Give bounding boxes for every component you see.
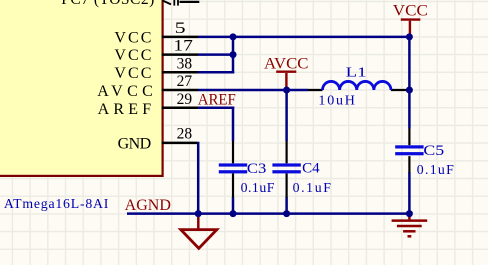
svg-text:AGND: AGND (125, 197, 171, 214)
svg-text:5: 5 (175, 20, 186, 37)
svg-text:28: 28 (177, 126, 193, 143)
svg-text:38: 38 (177, 55, 193, 72)
svg-text:29: 29 (177, 91, 193, 108)
svg-text:17: 17 (173, 38, 193, 55)
svg-text:GND: GND (118, 136, 152, 153)
svg-text:VCC: VCC (393, 2, 428, 19)
svg-text:0.1uF: 0.1uF (241, 180, 275, 195)
svg-text:VCC: VCC (114, 65, 151, 82)
svg-text:ATmega16L-8AI: ATmega16L-8AI (4, 196, 109, 211)
svg-text:AREF: AREF (198, 92, 236, 109)
svg-text:10uH: 10uH (318, 93, 355, 108)
svg-text:VCC: VCC (114, 30, 151, 47)
svg-text:C3: C3 (247, 161, 266, 177)
svg-text:PC7 (TOSC2): PC7 (TOSC2) (61, 0, 154, 8)
svg-text:27: 27 (177, 73, 193, 90)
svg-text:VCC: VCC (114, 47, 151, 64)
svg-text:C5: C5 (423, 143, 444, 159)
svg-text:AVCC: AVCC (264, 56, 309, 73)
svg-text:C4: C4 (302, 161, 320, 177)
svg-text:0.1uF: 0.1uF (293, 180, 332, 195)
svg-text:L1: L1 (346, 65, 367, 80)
svg-text:0.1uF: 0.1uF (417, 162, 454, 177)
